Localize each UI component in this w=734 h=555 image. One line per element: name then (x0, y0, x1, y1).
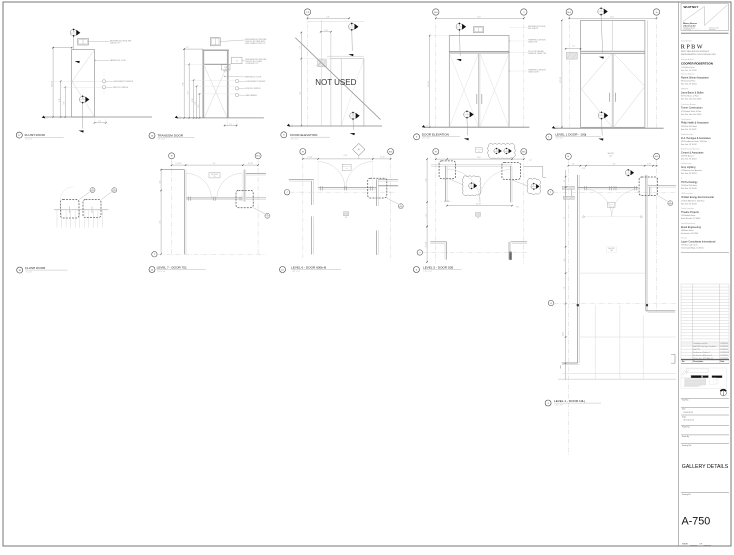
detail 17 title (25, 133, 64, 140)
detail 6 dim top (435, 157, 525, 160)
detail 17 pull station leader (106, 86, 113, 88)
detail 13 door note leader (224, 76, 245, 77)
detail 17 exit sign note (110, 40, 131, 44)
svg-text:2'-2": 2'-2" (229, 124, 232, 126)
detail 18 dashed frame left (61, 200, 80, 219)
svg-text:440 Park Avenue South, 12th Fl: 440 Park Avenue South, 12th Floor (681, 140, 708, 143)
detail 9 wall line 3 (330, 32, 332, 126)
svg-text:LEVEL 7 - DOOR 701: LEVEL 7 - DOOR 701 (157, 265, 187, 269)
facade maintenance entry (681, 222, 702, 235)
detail 18 ref leader 1 (79, 192, 90, 200)
detail 3 floor edge (558, 378, 676, 380)
svg-text:701: 701 (213, 176, 215, 178)
detail 9 door left stile (340, 59, 342, 127)
svg-text:Scale: Scale (682, 416, 686, 418)
detail 10 door leaf line (318, 188, 376, 190)
svg-text:17: 17 (236, 60, 238, 62)
detail 14 title bubble (149, 267, 155, 273)
svg-text:5'-8": 5'-8" (327, 16, 330, 18)
svg-text:9'-6" VIF: 9'-6" VIF (428, 81, 430, 87)
svg-text:230 West 20th Street: 230 West 20th Street (681, 125, 697, 128)
detail 1 transom rail (581, 51, 645, 53)
svg-text:New York, New York 10014: New York, New York 10014 (681, 113, 701, 116)
detail 13 keynote box (232, 57, 242, 64)
detail 18 hardware left (68, 207, 73, 214)
svg-text:11'-6": 11'-6" (477, 16, 481, 18)
svg-text:ENCLOSURE DOORS, TYP: ENCLOSURE DOORS, TYP (245, 43, 265, 45)
detail 6 title bubble (413, 267, 419, 273)
detail 1 gridline right (656, 15, 658, 128)
svg-text:4'-5 1/2": 4'-5 1/2" (476, 204, 482, 206)
svg-text:LEVEL 6 - DOOR 600b-B: LEVEL 6 - DOOR 600b-B (291, 265, 326, 269)
title block heavy rule (681, 32, 729, 34)
detail 6 wall left (445, 166, 447, 201)
detail 5 keynote top (456, 22, 466, 31)
detail 3 dim top (568, 164, 658, 171)
svg-text:8'-1 1/2": 8'-1 1/2" (425, 241, 427, 247)
detail 3 column hatch lower (563, 196, 574, 199)
detail 17 exit sign box (78, 39, 89, 46)
detail 5 dim left (428, 35, 431, 128)
detail 6 row bubble 7 (417, 250, 422, 255)
svg-text:1'-10": 1'-10" (516, 206, 520, 208)
construction manager entry (681, 103, 703, 116)
detail 18 title (25, 266, 67, 274)
svg-text:Turner Construction: Turner Construction (681, 107, 703, 110)
detail 14 wall right horiz 1 (246, 173, 266, 175)
detail 5 ground elevation marker (422, 125, 429, 129)
detail 3 row gridline 7 (553, 191, 676, 193)
detail 3 floor grid horiz 3 (562, 372, 676, 374)
svg-text:LIGHT/HUMIDITY SENSOR: LIGHT/HUMIDITY SENSOR (113, 81, 134, 83)
svg-text:A-750: A-750 (682, 515, 711, 527)
detail 6 dim middle (446, 204, 519, 209)
svg-text:15: 15 (352, 114, 354, 116)
whitney logo wordmark (684, 5, 699, 9)
svg-text:11'-6": 11'-6" (610, 16, 614, 18)
svg-text:15: 15 (82, 98, 84, 100)
svg-text:5'-0": 5'-0" (159, 220, 161, 223)
detail 17 swing arrow (75, 61, 80, 63)
detail 10 grid bubble H.5 (388, 149, 394, 155)
detail 1 frame (581, 20, 645, 127)
svg-text:R.A. Heintges & Associates: R.A. Heintges & Associates (681, 137, 711, 140)
lighting design entry (681, 162, 702, 175)
svg-text:16: 16 (267, 214, 269, 216)
key plan north arrow (720, 390, 726, 396)
detail 1 dim left (560, 20, 563, 128)
svg-text:05/01/2015: 05/01/2015 (684, 412, 693, 414)
detail 3 grid bubble H.5 (654, 153, 660, 159)
detail 10 wall right horiz 2 (378, 185, 398, 187)
detail 13 dim card (198, 93, 200, 119)
svg-text:1'-0 1/2": 1'-0 1/2" (307, 157, 313, 159)
detail 9 strike line (295, 38, 380, 120)
detail 1 door pulls (610, 93, 616, 102)
svg-text:3'-1": 3'-1" (425, 213, 427, 216)
detail 5 door pulls (477, 94, 482, 104)
detail 3 node dot left (577, 304, 579, 306)
detail 6 wall right (510, 166, 512, 203)
svg-text:186 Ames Street: 186 Ames Street (681, 229, 694, 232)
detail 17 sensor extension line (103, 72, 105, 94)
detail 3 floor grid verticals (595, 305, 643, 379)
detail 9 recessed box (318, 60, 327, 67)
svg-text:New York, NY 10016: New York, NY 10016 (681, 143, 697, 146)
svg-text:9'-0": 9'-0" (182, 82, 184, 86)
svg-text:New York, NY 10018: New York, NY 10018 (681, 202, 697, 205)
detail 3 gridline H.5 (656, 160, 658, 313)
svg-text:1/2" = 1'-0": 1/2" = 1'-0" (291, 138, 299, 140)
svg-text:STOREFRONT: STOREFRONT (343, 166, 351, 168)
detail 13 keynote note (245, 59, 266, 65)
detail 6 gridline left (435, 155, 437, 264)
detail 3 floor grid horiz 1 (580, 272, 645, 274)
detail 5 leaf 2 diagonals (480, 53, 509, 127)
detail 17 keynote marker mid (79, 95, 89, 104)
svg-text:15: 15 (459, 25, 461, 27)
svg-text:RECESSED EXIT SIGN, SEE: RECESSED EXIT SIGN, SEE (245, 39, 266, 41)
svg-text:16: 16 (92, 189, 94, 191)
detail 1 dim head (565, 46, 581, 50)
building envelope entry (681, 134, 711, 146)
detail 9 keynote bottom (350, 112, 360, 121)
detail 10 door jamb dotted (318, 156, 373, 189)
title block divider (678, 2, 680, 546)
whitney info right (709, 27, 719, 32)
svg-text:Date: Date (720, 360, 724, 363)
detail 18 ref bubble 2 (112, 188, 117, 194)
detail 3 wall left corner (561, 363, 580, 369)
civil engineer entry (681, 118, 709, 131)
svg-text:5: 5 (601, 10, 602, 12)
svg-text:1'-0": 1'-0" (564, 179, 566, 182)
svg-text:1 1/2" = 1'-0": 1 1/2" = 1'-0" (424, 271, 433, 273)
RPBW sublines (681, 50, 716, 56)
svg-text:1'-4": 1'-4" (98, 121, 101, 123)
detail 17 dim sensor height (59, 81, 61, 118)
detail 10 wall left vertical (312, 179, 314, 205)
detail 3 hinge point left (583, 216, 585, 218)
detail 14 wall left (184, 170, 186, 255)
svg-text:RPBW: RPBW (681, 44, 704, 51)
svg-text:2'-6": 2'-6" (300, 45, 302, 48)
detail 10 wall right lower (377, 231, 379, 256)
detail 3 node dot right (646, 304, 648, 306)
detail 14 door label box (209, 173, 220, 179)
svg-text:Layne Consultants Internationa: Layne Consultants International (681, 240, 716, 243)
svg-text:RECESSED EXIT SIGN,: RECESSED EXIT SIGN, (528, 26, 546, 28)
theater consultant entry (681, 207, 700, 220)
detail 14 title (157, 265, 206, 273)
detail 10 wall right vertical (377, 179, 379, 206)
detail 6 cloud keynote right (527, 178, 541, 194)
svg-text:GALLERY DETAILS: GALLERY DETAILS (682, 464, 729, 470)
svg-text:DBL DOOR: DBL DOOR (211, 174, 218, 176)
svg-text:New York, New York 10005: New York, New York 10005 (681, 98, 701, 101)
detail 9 door right stile (363, 59, 365, 127)
detail 10 grid bubble H (300, 149, 306, 155)
detail 3 swing arc right (612, 189, 640, 217)
detail 13 dim bottom (224, 124, 238, 126)
svg-text:of American Art: of American Art (683, 24, 696, 27)
svg-text:New York, NY 10018: New York, NY 10018 (681, 187, 697, 190)
detail 13 bottom extension (228, 118, 237, 127)
detail 13 exit sign box (210, 38, 220, 46)
detail 3 wall right (646, 175, 648, 311)
detail 10 wall left lower (312, 216, 314, 254)
detail 14 row bubble 7 (152, 252, 157, 257)
detail 14 swing arc right (217, 173, 242, 198)
detail 17 sensor symbol (102, 80, 105, 83)
svg-text:404 Fifth Avenue: 404 Fifth Avenue (681, 155, 694, 158)
detail 17 ground elevation marker (42, 116, 49, 120)
detail 5 frame (449, 36, 509, 128)
detail 5 exit sign box (473, 27, 483, 33)
detail 5 note 4 (528, 70, 546, 74)
detail 17 sensor note (113, 81, 134, 83)
svg-text:155 Avenue of the Americas: 155 Avenue of the Americas (681, 169, 702, 172)
detail 10 dashed box (368, 178, 387, 198)
detail 10 ref leader (387, 198, 399, 204)
detail 1 diamond glazing right (614, 53, 645, 127)
detail 17 keynote leader (73, 37, 75, 50)
detail 6 keynote leader right (512, 180, 528, 186)
detail 6 swing arc left (447, 169, 480, 202)
svg-text:3'-8": 3'-8" (195, 101, 197, 104)
svg-text:New York, NY 10011: New York, NY 10011 (681, 128, 696, 131)
detail 13 door note (245, 75, 262, 78)
detail 17 door midrail (72, 80, 95, 82)
detail 3 dashed box (639, 177, 658, 196)
svg-text:1 1/2" = 1'-0": 1 1/2" = 1'-0" (555, 404, 564, 406)
svg-text:4'-4": 4'-4" (159, 180, 161, 183)
detail 1 keynote bottom (598, 111, 608, 120)
detail 1 title (555, 132, 601, 139)
detail 6 dashed box left (439, 161, 456, 179)
detail 9 dim top (307, 16, 350, 19)
detail 13 title bubble (149, 133, 155, 139)
detail 3 door label box (608, 203, 616, 208)
detail 5 title bubble (414, 134, 420, 140)
detail 3 leaf meeting line (585, 216, 641, 218)
detail 1 ground line (555, 127, 664, 129)
detail 9 title (290, 133, 330, 140)
svg-text:Arup Lighting: Arup Lighting (681, 166, 696, 169)
detail 9 keynote top (349, 22, 359, 31)
detail 6 wall lower right (509, 242, 527, 260)
detail 18 hardware right (90, 207, 95, 214)
svg-text:3'-8": 3'-8" (64, 101, 66, 104)
svg-text:RECESSED EXIT SIGN, SEE: RECESSED EXIT SIGN, SEE (110, 40, 131, 42)
detail 10 dim top (302, 155, 391, 159)
detail 9 door head (327, 56, 364, 58)
detail 3 grid bubble H (565, 153, 571, 159)
detail 6 gridline right (523, 155, 525, 264)
leed consultant entry (681, 192, 714, 205)
detail 9 recessed box leader (316, 63, 321, 66)
detail 13 extension lines (184, 64, 235, 94)
detail 5 gridline left (435, 15, 437, 127)
project no field (681, 425, 729, 428)
svg-text:9'-0" VIF: 9'-0" VIF (51, 81, 53, 87)
detail 17 dim pull height (64, 87, 66, 118)
detail 14 wall right horiz 2 (246, 198, 266, 200)
detail 17 extension lines (53, 81, 102, 87)
detail 9 keynote top leader (348, 31, 353, 56)
detail 5 dim left extensions (430, 36, 450, 128)
detail 10 gridline right (390, 155, 392, 258)
svg-text:2'-10": 2'-10" (582, 168, 586, 170)
svg-text:11'-6": 11'-6" (477, 157, 481, 159)
detail 6 title (423, 265, 462, 273)
svg-text:1'-2 1/2": 1'-2 1/2" (380, 157, 386, 159)
detail 10 title (291, 265, 341, 273)
mep engineer entry (681, 89, 704, 101)
svg-text:1/2" = 1'-0": 1/2" = 1'-0" (158, 139, 166, 141)
detail 13 ground elevation marker (175, 116, 182, 120)
detail 13 align callout box (221, 64, 230, 72)
detail 13 dim pull (195, 85, 197, 118)
detail 13 left jamb (202, 50, 204, 118)
svg-text:88 University Place: 88 University Place (681, 80, 696, 83)
detail 6 keynote leader left (447, 178, 463, 185)
detail 5 center mullion (479, 53, 480, 127)
detail 14 dashed box (236, 190, 253, 207)
detail 17 door note (110, 59, 127, 62)
detail 3 column web (566, 189, 572, 196)
svg-text:LEVEL 1 - DOOR 10Lj: LEVEL 1 - DOOR 10Lj (554, 399, 585, 403)
detail 3 wall right corner (646, 311, 675, 313)
detail 1 center mullion (612, 53, 613, 127)
svg-text:3'-0": 3'-0" (198, 104, 200, 107)
detail 3 jamb return (649, 187, 651, 196)
svg-text:15: 15 (351, 25, 353, 27)
detail 14 row gridline (157, 253, 266, 255)
svg-text:Cerami & Associates: Cerami & Associates (681, 151, 704, 154)
svg-text:16: 16 (400, 205, 402, 207)
detail 13 right jamb (227, 50, 229, 118)
detail 13 keynote box tail (228, 63, 232, 66)
detail 18 dashed frame right (83, 200, 101, 218)
detail 3 row bubble 8 (548, 300, 553, 305)
detail 3 swing arc left (584, 189, 612, 217)
detail 17 door diagonal lower (72, 81, 95, 117)
drawing no field (681, 493, 729, 496)
detail 17 keynote mid leader (79, 104, 84, 133)
svg-text:Entek Engineering: Entek Engineering (681, 226, 702, 229)
detail 5 grid bubble H.5 (433, 9, 439, 15)
svg-text:VIF: VIF (477, 217, 479, 219)
detail 6 grid bubble H.5 (521, 149, 527, 155)
svg-text:24'-10": 24'-10" (563, 331, 565, 336)
svg-text:600b: 600b (345, 168, 348, 170)
detail 10 swing arc right (346, 162, 373, 189)
detail 1 dim top (569, 16, 658, 19)
svg-text:1'-10 1/2": 1'-10 1/2" (175, 163, 182, 165)
drawing title text (682, 464, 729, 470)
detail 14 ref bubble (265, 213, 270, 219)
detail 14 ref leader (253, 208, 265, 214)
RPBW wordmark (681, 44, 704, 51)
svg-text:25 Elizabeth Street: 25 Elizabeth Street (681, 214, 696, 217)
detail 10 door label box (342, 164, 351, 170)
detail 10 row bubble 7 (284, 190, 289, 195)
svg-text:LEVEL 1 DOOR - 100j: LEVEL 1 DOOR - 100j (555, 132, 586, 136)
detail 5 keynote bottom (464, 110, 474, 119)
svg-text:Viridian Energy Environmental: Viridian Energy Environmental (681, 196, 714, 199)
detail 3 floor grid horiz 2 (580, 336, 676, 338)
detail 13 frame head (202, 49, 229, 51)
svg-text:New York, NY 10003: New York, NY 10003 (681, 83, 697, 86)
detail 17 title bubble (16, 132, 22, 138)
detail 13 dim sensor (192, 80, 194, 119)
detail 9 title bubble (281, 132, 287, 138)
svg-text:TM Technology: TM Technology (681, 181, 698, 184)
detail 1 grid bubble H.5 (566, 9, 572, 15)
svg-text:FLUSH DOOR: FLUSH DOOR (25, 133, 46, 137)
detail 6 dim left upper (425, 158, 428, 227)
detail 17 pull station symbol (102, 86, 105, 89)
detail 14 wall right vertical (244, 170, 246, 202)
detail 17 dim bottom (94, 121, 107, 123)
detail 17 dim height overall (51, 47, 54, 118)
detail 13 pull symbol (235, 87, 245, 90)
detail 3 dim left column (563, 170, 567, 380)
svg-text:1'-0": 1'-0" (572, 46, 575, 48)
detail 5 note 3 (528, 50, 547, 55)
svg-text:1: 1 (533, 185, 534, 187)
cooper robertson wordmark (681, 62, 713, 66)
svg-text:New York, NY 10013: New York, NY 10013 (681, 172, 697, 175)
svg-text:Description: Description (693, 360, 703, 363)
svg-text:LEVEL 5 - DOOR 505: LEVEL 5 - DOOR 505 (423, 265, 453, 269)
detail 18 projection comb (57, 210, 102, 227)
detail 1 ground elevation marker (552, 126, 559, 130)
svg-text:Robert Silman Associates: Robert Silman Associates (681, 77, 710, 80)
detail 18 centerline (54, 209, 109, 211)
detail 9 NOT USED text (315, 78, 356, 87)
detail 14 door jamb dotted left (185, 173, 187, 198)
svg-text:375 Hudson Street, 6 Floor: 375 Hudson Street, 6 Floor (681, 110, 702, 113)
structural engineer entry (681, 73, 710, 86)
svg-text:4'-10": 4'-10" (192, 98, 194, 102)
detail 13 dim overall (182, 48, 185, 118)
detail 1 diamond glazing left (582, 53, 613, 127)
svg-text:Theatre Projects: Theatre Projects (681, 211, 700, 214)
svg-text:Building Envelope:: Building Envelope: (681, 134, 694, 136)
detail 3 column hatch upper (562, 186, 574, 189)
detail 3 wall left (578, 175, 580, 363)
svg-text:TEMPERED LOW IRON: TEMPERED LOW IRON (528, 70, 546, 72)
detail 3 door head (578, 188, 639, 190)
svg-text:DOOR ELEVATION: DOOR ELEVATION (422, 132, 449, 136)
svg-text:No.: No. (682, 361, 685, 363)
detail 3 gridline H (567, 160, 569, 456)
detail 1 keynote top (598, 7, 608, 16)
detail 17 exit sign leader (89, 41, 110, 43)
detail 14 swing arc left (186, 173, 211, 198)
detail 13 sensor note (245, 81, 266, 83)
detail 17 keynote marker top (70, 28, 80, 37)
detail 6 dim left lower (425, 226, 428, 263)
detail 6 wall left foot (444, 200, 450, 202)
detail 6 head lines (431, 165, 512, 166)
detail 13 door diagonal 1 (205, 66, 228, 118)
svg-text:VIF: VIF (345, 217, 347, 219)
detail 10 vif box (344, 212, 349, 219)
detail 10 hinge ticks (320, 186, 372, 190)
